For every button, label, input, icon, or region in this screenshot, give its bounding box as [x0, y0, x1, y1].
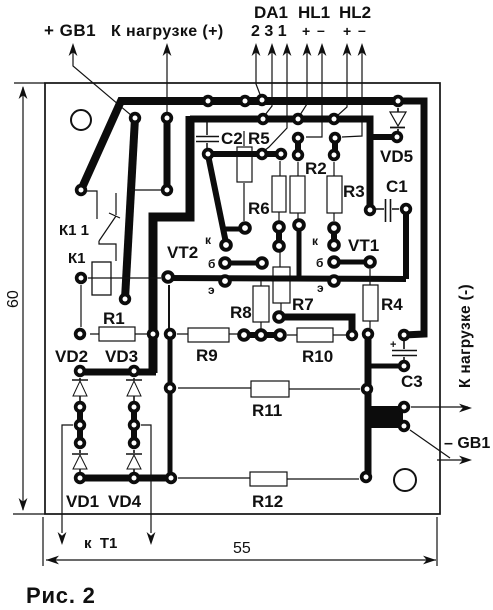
svg-text:HL1: HL1 [298, 3, 330, 22]
trace top supply [81, 101, 398, 190]
capacitor C1 [376, 199, 399, 222]
trace VT2 collector diagonal [208, 155, 226, 243]
svg-text:C1: C1 [386, 177, 408, 196]
resistor R11 [251, 381, 289, 397]
pad к нагрузке plus end [161, 184, 173, 196]
svg-text:– GB1: – GB1 [444, 435, 490, 452]
svg-text:–: – [317, 22, 325, 38]
pads collector row [219, 238, 233, 252]
wire HL1 plus [300, 46, 307, 115]
resistor R8 [253, 286, 269, 322]
pads VD top row [74, 365, 86, 377]
svg-text:R6: R6 [248, 199, 270, 218]
svg-text:–: – [358, 22, 366, 38]
trace output bar [366, 406, 403, 428]
wire emitter to R9 pad [168, 285, 170, 330]
diode VD3 [126, 378, 142, 401]
svg-text:R10: R10 [302, 347, 333, 366]
dimension 55 bottom [43, 517, 437, 566]
svg-text:VT2: VT2 [167, 243, 198, 262]
svg-text:HL2: HL2 [339, 3, 371, 22]
relay contact K1.1 [86, 191, 120, 261]
trace VT1 base [334, 260, 370, 265]
trace second row [190, 119, 370, 210]
pads C3 [398, 329, 410, 341]
svg-text:VT1: VT1 [348, 236, 379, 255]
trace R3 top pads [332, 138, 338, 155]
diode VD2 [72, 378, 88, 401]
resistor R7 [273, 267, 290, 303]
svg-text:К1 1: К1 1 [59, 222, 89, 239]
svg-text:К1: К1 [68, 250, 86, 267]
trace VD2 VD3 top row [80, 369, 156, 376]
trace R2 top pads [295, 138, 301, 155]
svg-text:+: + [302, 23, 310, 39]
capacitor C3 [392, 341, 417, 360]
trace K nagruzke plus vertical [164, 118, 171, 190]
wire pad167 to vertical [131, 189, 161, 191]
dimension 60 left [13, 83, 45, 514]
svg-text:R2: R2 [305, 159, 327, 178]
pad K1 left [75, 272, 87, 284]
relay K1 body [92, 262, 111, 295]
trace VD1 VD4 bottom row [80, 475, 171, 482]
svg-text:к: к [312, 234, 319, 248]
svg-text:C3: C3 [401, 372, 423, 391]
pads base row [218, 256, 232, 270]
trace emitter row [168, 278, 406, 279]
svg-text:VD1: VD1 [66, 492, 99, 511]
svg-text:э: э [208, 283, 215, 297]
svg-text:VD5: VD5 [380, 147, 413, 166]
pads row 227 [238, 221, 252, 235]
pads VD row 425 [74, 419, 86, 431]
svg-text:VD2: VD2 [55, 347, 88, 366]
pad R12 right [360, 471, 372, 483]
svg-text:К нагрузке (-): К нагрузке (-) [457, 284, 474, 388]
svg-text:R7: R7 [292, 295, 314, 314]
svg-text:R3: R3 [343, 182, 365, 201]
pad GB1 trace end [119, 293, 131, 305]
svg-text:55: 55 [233, 540, 251, 557]
svg-text:к Т1: к Т1 [84, 535, 117, 552]
svg-text:60: 60 [5, 290, 22, 308]
trace C1 down [403, 209, 409, 279]
svg-text:R1: R1 [103, 309, 125, 328]
board outline [45, 83, 440, 514]
wire HL2 minus [342, 46, 362, 137]
resistor R3 [327, 176, 342, 213]
wire HL2 plus [337, 46, 347, 116]
diode VD4 [126, 450, 142, 472]
svg-text:R5: R5 [248, 129, 270, 148]
wire +GB1 entry [73, 48, 132, 116]
resistor R12 [250, 472, 287, 486]
pads VD row 407 [74, 401, 86, 413]
trace GB1 slanted [125, 118, 135, 299]
wire к Т1 right [141, 425, 151, 533]
resistor R2 [290, 176, 305, 213]
svg-text:+: + [343, 23, 351, 39]
trace R8 bottom row [244, 332, 280, 338]
trace R9 R11 R12 vertical [168, 334, 173, 478]
resistor R1 [99, 327, 135, 341]
svg-text:2 3 1: 2 3 1 [251, 23, 287, 40]
svg-text:R8: R8 [230, 303, 252, 322]
svg-text:VD4: VD4 [108, 492, 142, 511]
diode VD1 [72, 450, 88, 472]
trace VD3 column [131, 407, 137, 443]
pads emitter row [161, 270, 175, 284]
svg-text:э: э [317, 281, 324, 295]
pads top trace [202, 95, 214, 107]
pads VD row 443 [74, 437, 86, 449]
svg-text:К нагрузке (+): К нагрузке (+) [111, 23, 224, 40]
resistor R4 [363, 285, 378, 321]
mounting hole top-left [71, 110, 91, 130]
resistor R10 [297, 328, 333, 342]
trace row C2-R6 [208, 151, 281, 157]
wire HL1 minus [306, 46, 322, 137]
wire output К нагрузке minus [411, 406, 468, 408]
svg-text:R4: R4 [381, 295, 403, 314]
trace to R5 bottom pad [221, 227, 245, 232]
svg-text:DA1: DA1 [254, 3, 288, 22]
svg-text:б: б [316, 256, 323, 270]
pads C1 [364, 204, 376, 216]
pad R7 bottom [272, 310, 286, 324]
svg-text:R12: R12 [252, 492, 283, 511]
trace R2 bottom to emitter [297, 225, 302, 281]
resistor R6 [272, 176, 286, 212]
svg-text:б: б [208, 257, 215, 271]
pads row 119 [129, 112, 141, 124]
pads VD bottom row [74, 472, 86, 484]
svg-text:Рис. 2: Рис. 2 [26, 583, 96, 608]
capacitor C2 [196, 122, 219, 149]
pad diagonal end [75, 184, 87, 196]
wire к Т1 left [62, 425, 73, 533]
pads row 138 [292, 132, 304, 144]
trace C3 bottom link [369, 364, 404, 369]
svg-text:+ GB1: + GB1 [44, 21, 96, 40]
svg-text:к: к [205, 233, 212, 247]
svg-text:R9: R9 [196, 346, 218, 365]
trace VT2 base [225, 261, 261, 266]
trace R7 bottom to R10 [279, 317, 352, 331]
svg-text:VD3: VD3 [105, 347, 138, 366]
trace R3-VT1 collector junction [331, 228, 337, 245]
pads output [398, 401, 410, 413]
svg-text:C2: C2 [221, 129, 243, 148]
wire DA1 pin1 [264, 46, 287, 151]
trace right edge vertical [398, 101, 424, 335]
wire DA1 pin2 [256, 46, 261, 97]
wire DA1 pin3 [265, 46, 272, 115]
mounting hole bottom-right [394, 469, 416, 491]
pads R11 [164, 382, 176, 394]
resistor R9 [188, 328, 229, 342]
svg-text:+: + [390, 339, 396, 351]
wire К нагрузке (+) entry [166, 48, 168, 112]
wire output -GB1 [410, 430, 468, 460]
trace big left vertical [153, 116, 190, 373]
pads row 334 [74, 328, 86, 340]
wire K1 row horizontal [88, 277, 161, 279]
svg-text:R11: R11 [252, 401, 282, 420]
trace to VD5 cathode [370, 134, 396, 140]
diode VD5 [390, 108, 405, 131]
wire K1 to R1 [80, 285, 82, 327]
pads row 154 [202, 148, 214, 160]
trace R4 to R11 R12 vertical [365, 338, 372, 477]
trace VD2 column [77, 407, 83, 443]
resistor R5 [237, 147, 252, 182]
trace R6-R7 junction [276, 227, 282, 246]
